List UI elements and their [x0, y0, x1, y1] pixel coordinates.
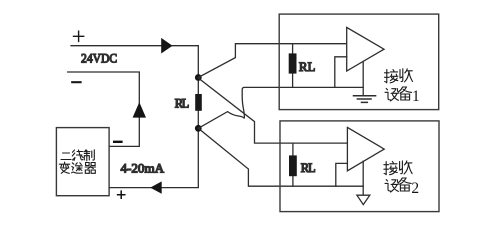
- wire op-amp U2 inverting input to return rail: [336, 163, 348, 186]
- receiver1 box: [279, 14, 439, 110]
- supply negative terminal label: [72, 81, 80, 83]
- ground receiver1 (earth bars): [354, 96, 376, 103]
- node + supply positive terminal label: [74, 31, 84, 41]
- wire node A to receiver1 +input: [198, 44, 346, 78]
- svg-text:2: 2: [411, 180, 419, 197]
- current direction arrow left on bottom wire: [150, 181, 162, 193]
- wire node B to receiver2 return: [198, 128, 363, 186]
- resistor RL receiver2 body: [289, 155, 297, 176]
- wire node B to receiver1 return (with crossover hop): [198, 87, 363, 128]
- wire transmitter plus to node B vertical: [109, 128, 198, 187]
- wire op-amp U1 inverting input to return rail: [335, 57, 347, 88]
- label receiver2 text line1: 接收: [384, 162, 397, 175]
- svg-text:1: 1: [412, 88, 420, 105]
- resistor RL receiver1 body: [289, 53, 297, 73]
- wire op-amp U1 common to ground: [362, 62, 364, 96]
- resistor RL receiver2 leads: [292, 143, 294, 186]
- op-amp U1 receiver1: [347, 27, 384, 71]
- label receiver1 text line2: 设备1: [385, 89, 398, 101]
- ground receiver2 (open triangle): [357, 195, 370, 204]
- wire op-amp U2 common to ground: [362, 161, 364, 195]
- svg-text:RL: RL: [301, 161, 316, 175]
- current direction arrow on +wire: [161, 38, 172, 54]
- wire 24V+ horizontal then down to node A: [71, 46, 198, 74]
- resistor RL receiver1 leads: [292, 44, 294, 88]
- wire 24V- : right, down, left to transmitter minus terminal: [68, 72, 140, 146]
- label receiver1 text line1: 接收: [385, 70, 398, 83]
- transmitter minus pin label: [114, 141, 121, 143]
- svg-text:RL: RL: [299, 60, 316, 74]
- svg-text:24VDC: 24VDC: [81, 50, 117, 65]
- transmitter plus pin label: [118, 191, 125, 198]
- receiver2 box: [280, 121, 439, 212]
- label transmitter text line1: 二线制: [61, 153, 71, 160]
- svg-text:RL: RL: [175, 97, 189, 111]
- label 24VDC done above; CJK labels drawn as strokes: [59, 69, 419, 197]
- junction node A: [195, 74, 202, 81]
- label receiver2 text line2: 设备2: [385, 180, 398, 192]
- wire node A to receiver2 +input (crossing): [198, 78, 347, 143]
- resistor RL loop: [195, 94, 202, 111]
- junction node B: [195, 125, 202, 132]
- transmitter box (two-wire transmitter): [56, 128, 109, 196]
- op-amp U2 receiver2: [347, 127, 384, 170]
- label transmitter text line2: 变送器: [59, 162, 70, 173]
- current direction arrow up on -wire: [133, 102, 146, 118]
- svg-text:4-20mA: 4-20mA: [121, 160, 165, 175]
- wire node A to node B (loop resistor branch): [197, 74, 199, 128]
